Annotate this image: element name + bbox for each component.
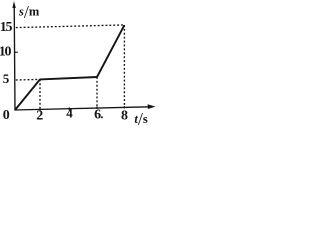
svg-text:8: 8 — [121, 108, 128, 123]
dashed horizontal at s=15 — [16, 25, 125, 28]
y-axis — [13, 5, 16, 110]
graph line segment 2-6s flat — [40, 77, 97, 79]
svg-text:5: 5 — [3, 71, 10, 86]
svg-text:0: 0 — [3, 108, 10, 123]
x tick 8 — [123, 106, 125, 108]
dashed vertical at t=8 — [123, 25, 125, 106]
artifact dot after 6 — [101, 116, 103, 118]
svg-text:4: 4 — [66, 105, 73, 120]
x-axis arrowhead — [148, 104, 156, 109]
svg-text:t/s: t/s — [134, 109, 148, 128]
dashed vertical at t=2 — [39, 79, 41, 108]
y tick 10 — [15, 51, 18, 53]
x tick 4 — [68, 107, 70, 110]
x-axis — [15, 107, 151, 110]
graph line segment 6-8s rising — [97, 25, 124, 77]
graph line segment 0-2s rising — [15, 79, 40, 110]
svg-text:6: 6 — [94, 108, 101, 123]
dashed vertical at t=6 — [96, 77, 98, 107]
y-axis arrowhead — [12, 1, 15, 8]
dashed horizontal at s=5 — [16, 78, 40, 81]
svg-text:2: 2 — [36, 108, 43, 123]
svg-text:15: 15 — [0, 20, 12, 35]
x tick 6 — [96, 107, 98, 109]
svg-text:10: 10 — [0, 45, 11, 60]
x tick 2 — [39, 109, 41, 111]
